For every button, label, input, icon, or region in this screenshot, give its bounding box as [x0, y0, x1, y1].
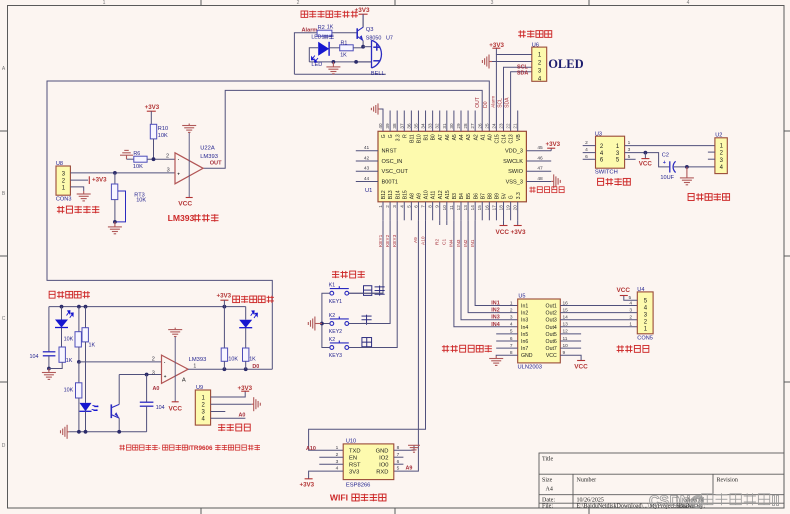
svg-text:27: 27	[470, 123, 475, 129]
mcu U1 bottom pin 2	[389, 202, 391, 221]
svg-text:R10: R10	[158, 126, 168, 132]
svg-text:EN: EN	[349, 455, 357, 461]
wire Out2 to U4	[560, 312, 637, 314]
mcu U1 left pin 43 VSC_OUT	[356, 170, 378, 172]
ground ULN2003	[489, 356, 503, 365]
svg-text:LED: LED	[311, 62, 322, 68]
svg-text:ULN2003: ULN2003	[518, 365, 543, 371]
svg-text:3: 3	[152, 371, 155, 377]
wire net Alarm vertical at MCU	[495, 55, 497, 132]
wire keys left rail	[322, 293, 330, 347]
phototransistor ITR9606	[110, 404, 112, 418]
svg-text:+3V3: +3V3	[546, 141, 561, 148]
ground buzzer	[326, 62, 340, 74]
wire wifi pin4 3V3	[309, 471, 344, 479]
svg-text:15: 15	[477, 205, 482, 211]
section title 蜂鸣器声光报警	[301, 11, 308, 17]
svg-text:B12: B12	[381, 190, 387, 199]
svg-text:B8: B8	[487, 193, 493, 199]
svg-text:VCC: VCC	[178, 201, 192, 208]
svg-text:SWCLK: SWCLK	[503, 159, 523, 165]
svg-text:N: N	[680, 494, 690, 510]
svg-text:VSC_OUT: VSC_OUT	[382, 169, 409, 175]
svg-text:3: 3	[491, 0, 494, 6]
resistor 10K upper divider	[78, 307, 80, 332]
mcu U1 bottom pin 20	[517, 202, 519, 221]
svg-text:3.3: 3.3	[395, 134, 401, 141]
label 加	[361, 315, 371, 317]
svg-text:IN2: IN2	[491, 308, 499, 314]
power VCC op-amp	[186, 197, 193, 199]
svg-text:B0: B0	[431, 134, 437, 140]
wire wifi pin7 stub	[394, 456, 404, 458]
svg-text:Out6: Out6	[546, 339, 557, 345]
svg-text:10K: 10K	[136, 198, 146, 204]
svg-text:OUT: OUT	[210, 160, 222, 166]
svg-text:45: 45	[537, 145, 543, 151]
svg-text:+3V3: +3V3	[145, 104, 160, 111]
mcu U1 top pin 33	[432, 111, 434, 132]
svg-text:10UF: 10UF	[660, 175, 674, 181]
resistor 1K led1	[59, 347, 65, 362]
svg-text:K2: K2	[329, 313, 335, 319]
mcu U1 bottom pin 7	[425, 202, 427, 221]
svg-text:Date:: Date:	[542, 497, 555, 503]
svg-text:1: 1	[103, 0, 106, 6]
svg-text:5: 5	[406, 205, 411, 208]
op-amp A LM393 module	[162, 355, 189, 383]
svg-text:LM393: LM393	[189, 357, 207, 363]
svg-text:23: 23	[499, 123, 504, 129]
svg-text:10/26/2025: 10/26/2025	[577, 497, 604, 503]
mcu U1 top pin 29	[460, 111, 462, 132]
svg-text:S: S	[659, 494, 669, 510]
svg-text:Out2: Out2	[546, 311, 557, 317]
svg-text:32: 32	[435, 123, 440, 129]
mcu U1 bottom pin 11	[453, 202, 455, 221]
capacitor 104 power	[43, 351, 56, 353]
wire net IN4	[454, 220, 518, 326]
svg-text:8: 8	[428, 205, 433, 208]
svg-text:44: 44	[364, 176, 370, 182]
ground R6	[127, 158, 134, 160]
junction rail bottom c	[117, 430, 121, 434]
svg-text:IO2: IO2	[379, 455, 388, 461]
svg-text:A7: A7	[438, 134, 444, 140]
svg-text:K2: K2	[329, 337, 335, 343]
svg-text:LED1: LED1	[311, 35, 324, 41]
mcu U1 left pin 42 OSC_IN	[356, 160, 378, 162]
svg-text:U1: U1	[365, 188, 372, 194]
svg-text:+: +	[177, 172, 180, 177]
wire wifi pin2 stub	[319, 456, 343, 458]
wire net SDA (U1 pin22 to OLED pin4)	[511, 72, 532, 132]
resistor 10K lower divider	[78, 362, 80, 383]
label 程序下载口	[530, 187, 532, 193]
wire key right stubs	[349, 292, 383, 294]
svg-text:In7: In7	[521, 346, 528, 352]
svg-text:10K: 10K	[64, 336, 74, 342]
svg-text:30: 30	[449, 123, 454, 129]
ground keys	[308, 317, 322, 331]
svg-text:+3V3: +3V3	[238, 385, 253, 392]
svg-text:22: 22	[506, 123, 511, 129]
mcu U1 bottom pin 10	[446, 202, 448, 221]
mcu U1 bottom pin 13	[467, 202, 469, 221]
svg-text:C2: C2	[662, 153, 669, 159]
junction cap A0 tap	[145, 373, 149, 377]
wire U9 pin2 gnd	[211, 403, 252, 405]
svg-text:B10: B10	[417, 134, 423, 143]
led ir emitter	[80, 403, 92, 411]
svg-text:@: @	[690, 494, 704, 510]
buzzer BELL	[372, 40, 382, 68]
wire buzzer left loop	[294, 73, 385, 75]
svg-text:20: 20	[513, 205, 518, 211]
junction C2 gnd	[685, 165, 689, 169]
svg-text:LM393: LM393	[200, 154, 218, 160]
svg-text:SWIO: SWIO	[508, 169, 524, 175]
svg-text:ESP8266: ESP8266	[346, 482, 371, 488]
svg-text:G: G	[388, 134, 394, 138]
svg-text:1: 1	[336, 445, 339, 451]
ground power led	[42, 369, 56, 380]
svg-text:34: 34	[421, 123, 426, 129]
wire module top rail +3V3	[49, 306, 246, 308]
svg-text:RST: RST	[349, 462, 361, 468]
svg-text:IO0: IO0	[379, 462, 388, 468]
svg-text:IN1: IN1	[491, 301, 499, 307]
svg-text:CON3: CON3	[56, 197, 72, 203]
svg-text:VSS_3: VSS_3	[506, 179, 523, 185]
svg-text:104: 104	[30, 354, 39, 360]
wire opamp pin3 row	[119, 374, 161, 376]
svg-text:A0: A0	[239, 412, 246, 418]
wire LED row	[309, 48, 318, 62]
svg-text:2: 2	[585, 140, 588, 146]
wire uln right stubs 12-10	[560, 333, 581, 335]
resistor R6	[134, 156, 147, 162]
section title 电源输入端	[688, 193, 694, 200]
svg-text:ITR9606: ITR9606	[188, 445, 213, 452]
section title 状态指示灯	[233, 296, 240, 303]
svg-text:B14: B14	[395, 190, 401, 199]
led power indicator	[61, 307, 63, 320]
resistor RT3	[114, 173, 116, 184]
svg-text:A4: A4	[546, 487, 553, 493]
svg-text:B5: B5	[466, 193, 472, 199]
svg-text:A12: A12	[438, 190, 444, 199]
svg-text:3.3: 3.3	[516, 192, 522, 199]
svg-text:12: 12	[456, 205, 461, 211]
junction RT3 tap	[113, 171, 117, 175]
label 设置	[364, 286, 372, 296]
mcu U1 bottom pin 12	[460, 202, 462, 221]
mcu U1 top pin 38	[396, 111, 398, 132]
svg-text:47: 47	[537, 166, 543, 172]
opamp A power rail	[174, 336, 176, 402]
junction ground tap	[332, 60, 336, 64]
section title 模块接口	[218, 424, 225, 426]
svg-text:10K: 10K	[158, 133, 168, 139]
svg-text:WIFI: WIFI	[330, 493, 348, 503]
svg-text:A6: A6	[445, 134, 451, 140]
svg-text:+3V3: +3V3	[355, 7, 371, 14]
svg-text:3: 3	[510, 315, 513, 321]
wire U9 pin3 stub	[211, 411, 226, 413]
svg-text:5: 5	[629, 295, 632, 301]
svg-text:2: 2	[152, 356, 155, 362]
watermark CSDN	[649, 493, 780, 509]
wire U2 pin3 stub	[708, 158, 715, 160]
wire net IN3	[461, 220, 518, 319]
ground at U1 pin48	[551, 174, 560, 188]
svg-text:OUT: OUT	[475, 97, 481, 108]
svg-text:2: 2	[629, 315, 632, 321]
svg-text:29: 29	[456, 123, 461, 129]
mcu U1 left pin 44 B00T1	[356, 180, 378, 182]
wire switch pin3 VCC node	[625, 153, 670, 167]
label 减	[362, 338, 372, 347]
svg-text:OSC_IN: OSC_IN	[382, 159, 403, 165]
mcu U1 bottom pin 9	[439, 202, 441, 221]
svg-text:KEY3: KEY3	[329, 353, 342, 359]
title block	[539, 453, 784, 508]
section title 步进电机	[618, 345, 620, 352]
junction rail bottom b	[84, 430, 88, 434]
svg-text:40: 40	[378, 123, 383, 129]
svg-text:B4: B4	[459, 193, 465, 199]
svg-text:C13: C13	[509, 134, 515, 143]
svg-text:1K: 1K	[327, 24, 334, 30]
svg-text:A9: A9	[406, 466, 413, 472]
svg-text:TXD: TXD	[349, 449, 361, 455]
svg-text:33: 33	[428, 123, 433, 129]
power +3V3 at U1 pin45	[550, 148, 552, 151]
mcu U1 bottom pin 3	[396, 202, 398, 221]
ground left of U1 pin40	[380, 109, 383, 111]
ground module rail	[61, 425, 70, 439]
junction out 1K	[244, 367, 248, 371]
svg-text:26: 26	[477, 123, 482, 129]
junction rail 1K	[84, 305, 88, 309]
svg-text:R6: R6	[133, 151, 140, 157]
svg-text:36: 36	[406, 123, 411, 129]
svg-text:Alarm: Alarm	[302, 28, 318, 34]
mcu U1 body	[378, 131, 526, 202]
junction rail 3V3 tap	[223, 305, 227, 309]
svg-text:13: 13	[463, 205, 468, 211]
ground OLED	[482, 55, 492, 69]
section title 电源开关	[598, 178, 604, 185]
power +3V3 at U1 pin20	[517, 220, 519, 225]
svg-text:Out7: Out7	[546, 346, 557, 352]
svg-text:B11: B11	[409, 134, 415, 143]
svg-text:42: 42	[364, 155, 370, 161]
svg-text:46: 46	[537, 155, 543, 161]
mcu U1 bottom pin 5	[410, 202, 412, 221]
svg-text:11: 11	[449, 205, 454, 210]
opamp power rail	[188, 132, 190, 197]
svg-text:2: 2	[510, 307, 513, 313]
svg-text:Number: Number	[577, 478, 597, 484]
mcu U1 right pin 48 VSS_3	[526, 180, 551, 182]
svg-text:39: 39	[385, 123, 390, 129]
svg-text:+3V3: +3V3	[300, 482, 315, 489]
svg-text:+3V3: +3V3	[92, 177, 107, 184]
svg-text:A5: A5	[452, 134, 458, 140]
wire net SCL (U1 pin23 to OLED pin3)	[504, 67, 532, 131]
wire net IN2	[468, 220, 518, 312]
svg-text:C15: C15	[495, 134, 501, 143]
ground power input	[680, 167, 694, 185]
svg-text:BELL: BELL	[371, 71, 385, 77]
svg-text:A0: A0	[487, 134, 493, 140]
svg-text:24: 24	[491, 123, 496, 129]
svg-text:File:: File:	[542, 504, 553, 510]
svg-text:B6: B6	[473, 193, 479, 199]
svg-text:D0: D0	[252, 364, 259, 370]
wire U1 pin10 stub	[446, 220, 448, 225]
svg-text:SDA: SDA	[517, 71, 528, 77]
svg-text:104: 104	[156, 405, 165, 411]
svg-text:A8: A8	[409, 193, 415, 199]
svg-text:In5: In5	[521, 332, 528, 338]
section title 液晶显示	[519, 30, 521, 37]
svg-text:VB: VB	[516, 134, 522, 141]
svg-text:2: 2	[166, 154, 169, 160]
svg-text:25: 25	[484, 123, 489, 129]
svg-text:5: 5	[397, 466, 400, 472]
wire Out1 to U4	[560, 305, 637, 307]
svg-text:A11: A11	[431, 190, 437, 199]
mcu U1 top pin 32	[439, 111, 441, 132]
svg-text:A3: A3	[466, 134, 472, 140]
section caption 点滴检测模块	[120, 445, 122, 451]
section title 步进电机驱动	[443, 345, 445, 352]
svg-text:+: +	[164, 374, 167, 379]
svg-text:10K: 10K	[133, 164, 143, 170]
junction rail LED1	[60, 305, 64, 309]
svg-text:SCL: SCL	[498, 98, 504, 108]
wire U9 pin4 A0	[211, 417, 246, 419]
svg-text:A10: A10	[306, 446, 316, 452]
mcu U1 right pin 47 SWIO	[526, 170, 551, 172]
section title 按键设置	[332, 271, 339, 273]
svg-text:28: 28	[463, 123, 468, 129]
svg-text:A15: A15	[445, 190, 451, 199]
svg-text:R: R	[402, 134, 408, 138]
svg-text:GND: GND	[376, 449, 389, 455]
wire net A9 to wifi	[394, 220, 419, 471]
svg-text:B15: B15	[402, 190, 408, 199]
wire switch pin5 stub	[625, 158, 636, 160]
wire Out4 to U4	[560, 326, 637, 328]
svg-text:OLED: OLED	[548, 57, 583, 71]
mcu U1 top pin 36	[410, 111, 412, 132]
wire wifi pin8 gnd	[394, 445, 414, 450]
svg-text:CON5: CON5	[637, 336, 653, 342]
ground above op-amp A	[168, 328, 182, 337]
svg-text:A4: A4	[459, 134, 465, 140]
mcu U1 top pin 27	[474, 111, 476, 132]
svg-text:K1: K1	[329, 283, 335, 289]
transistor Q3	[356, 28, 358, 39]
ground above op-amp U22A	[182, 124, 196, 133]
svg-text:4: 4	[510, 322, 513, 328]
svg-text:R1: R1	[341, 40, 348, 46]
LED LED1	[318, 42, 329, 56]
svg-text:6: 6	[413, 205, 418, 208]
wire R6 to opamp pin2	[147, 158, 175, 160]
junction bell minus	[354, 60, 358, 64]
junction R10-R6	[152, 157, 156, 161]
svg-text:1: 1	[629, 322, 632, 328]
svg-text:35: 35	[413, 123, 418, 129]
svg-text:B13: B13	[388, 190, 394, 199]
mcu U1 bottom pin 1	[382, 202, 384, 221]
svg-text:C14: C14	[502, 134, 508, 143]
svg-text:G: G	[509, 195, 515, 199]
svg-text:In3: In3	[521, 318, 528, 324]
junction cap ground	[47, 367, 51, 371]
wire net KEY3	[349, 220, 397, 347]
svg-text:VCC: VCC	[617, 287, 631, 294]
svg-text:B3: B3	[452, 193, 458, 199]
ground U9	[252, 397, 261, 411]
svg-text:IN3: IN3	[491, 315, 499, 321]
pushbutton K2 KEY2	[330, 317, 349, 326]
svg-text:1K: 1K	[340, 52, 347, 58]
svg-text:C: C	[2, 316, 6, 322]
svg-text:In4: In4	[521, 325, 528, 331]
svg-text:Out4: Out4	[546, 325, 557, 331]
resistor 1K ir led	[85, 307, 87, 328]
svg-text:VCC: VCC	[169, 405, 183, 412]
wire net KEY1	[349, 220, 383, 293]
svg-text:4: 4	[585, 147, 588, 153]
mcu U1 bottom pin 18	[503, 202, 505, 221]
wire OLED pin2 ground	[492, 61, 532, 63]
mcu U1 bottom pin 8	[432, 202, 434, 221]
svg-text:D: D	[670, 494, 680, 510]
svg-text:Out5: Out5	[546, 332, 557, 338]
wire net Alarm (buzzer to U1 pin24)	[294, 33, 317, 75]
mcu U1 top pin 28	[467, 111, 469, 132]
svg-text:KEY1: KEY1	[329, 299, 342, 305]
svg-text:LM393: LM393	[168, 213, 195, 223]
svg-text:Size: Size	[542, 478, 553, 484]
svg-text:+3V3: +3V3	[217, 293, 232, 300]
svg-text:II: II	[772, 494, 780, 510]
svg-text:C1: C1	[442, 239, 448, 245]
svg-text:48: 48	[537, 176, 543, 182]
junction divider mid	[77, 360, 81, 364]
resistor 1K status	[243, 348, 249, 361]
svg-text:A9: A9	[417, 193, 423, 199]
wire bell minus	[356, 61, 371, 63]
svg-text:KEY2: KEY2	[329, 329, 342, 335]
svg-text:D: D	[2, 443, 6, 449]
mcu U1 left pin 41 NRST	[356, 150, 378, 152]
svg-text:4: 4	[629, 300, 632, 306]
mcu U1 top pin 21	[517, 111, 519, 132]
svg-text:1K: 1K	[89, 342, 96, 348]
svg-text:Revision: Revision	[717, 478, 738, 484]
mcu U1 bottom pin 17	[495, 202, 497, 221]
wire net IN1	[475, 220, 518, 305]
svg-text:41: 41	[364, 145, 370, 151]
